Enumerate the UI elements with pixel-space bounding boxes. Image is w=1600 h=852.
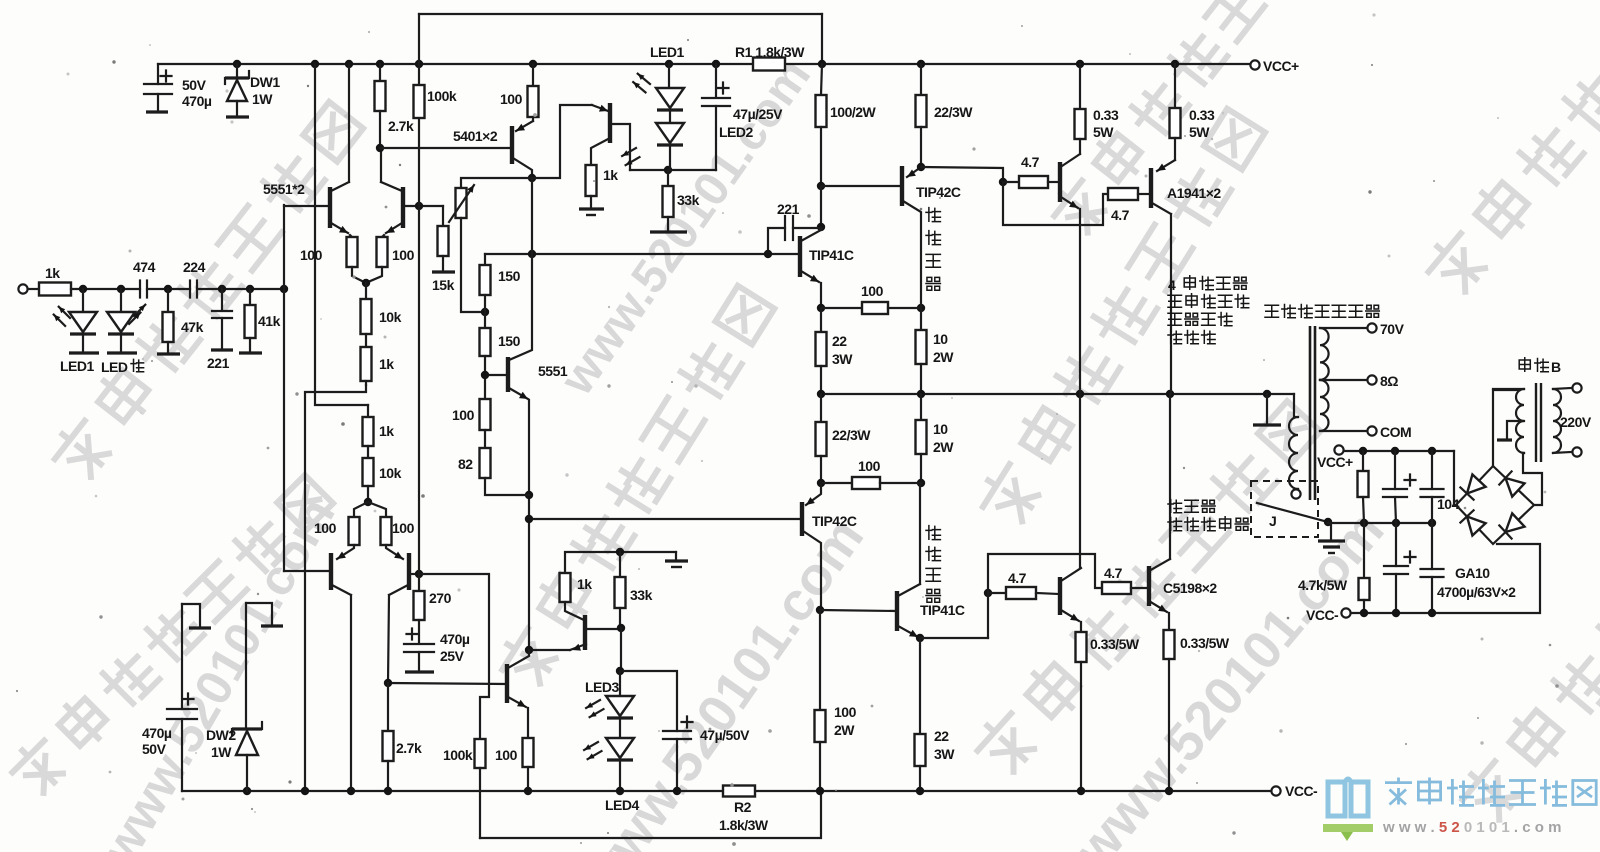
node 221 junction [817, 223, 825, 231]
node vas out [525, 646, 533, 654]
stub terminal right [246, 603, 283, 626]
svg-text:DW2: DW2 [206, 727, 236, 743]
label VCC- psu [1306, 607, 1339, 623]
watermark cjk right-lower [970, 397, 1321, 779]
resistor 10k tail [361, 283, 372, 334]
capacitor 47u/25V [702, 64, 730, 170]
svg-text:1k: 1k [45, 265, 60, 281]
svg-text:LED: LED [101, 359, 128, 375]
diode bridge TR [1499, 471, 1524, 496]
label 100 lowpair L [314, 520, 337, 536]
capacitor 470u/50V lower [167, 604, 197, 791]
svg-text:0.33: 0.33 [1093, 107, 1119, 123]
label 100k lower [443, 747, 473, 763]
label 0.33/5W c5198 [1180, 635, 1230, 651]
label 221 input [207, 355, 230, 371]
terminal coil end [1291, 489, 1300, 498]
label GA10 [1455, 565, 1490, 581]
label 82 chain [458, 456, 473, 472]
node psu mid dots [1360, 519, 1436, 527]
wire tap 8ohm [1320, 379, 1367, 381]
wire tip42top base [821, 185, 901, 187]
node 33k2 top [616, 548, 624, 556]
label 100k upper [427, 88, 457, 104]
svg-text:C5198×2: C5198×2 [1163, 580, 1217, 596]
label VCC+ [1263, 58, 1299, 74]
svg-text:470µ: 470µ [182, 93, 212, 109]
LED LED4 [606, 738, 634, 791]
svg-text:100: 100 [858, 458, 881, 474]
logo url [1382, 819, 1561, 836]
label heatsink upper [926, 208, 940, 291]
svg-text:100: 100 [861, 283, 884, 299]
svg-text:221: 221 [207, 355, 230, 371]
wire rail column x315 [315, 64, 368, 405]
wire VCC+ top rail [158, 63, 1250, 65]
svg-text:50V: 50V [142, 741, 167, 757]
svg-text:TIP41C: TIP41C [920, 602, 965, 618]
resistor 100 5401L [528, 64, 539, 121]
watermark cjk top-right [1421, 0, 1600, 299]
watermark cjk center-right [975, 106, 1267, 530]
resistor 4.7 a1941 [1108, 188, 1150, 200]
wire c5198 base path [988, 554, 1102, 593]
svg-text:2W: 2W [933, 439, 954, 455]
resistor 22 3W [816, 308, 827, 394]
wire driver2 emitter [1080, 622, 1082, 632]
label 47u/50V [700, 727, 750, 743]
watermark cjk top-left [48, 99, 365, 485]
label heatsink lower [926, 526, 940, 603]
label 270 [429, 590, 452, 606]
watermark url right [1063, 500, 1396, 852]
wire top feedback line [419, 14, 822, 64]
node driver2 feed [984, 589, 992, 597]
svg-text:33k: 33k [630, 587, 653, 603]
label TIP42C top [916, 184, 961, 200]
resistor 22/3W top [916, 64, 927, 167]
label DW1 1W [250, 74, 280, 107]
svg-text:100: 100 [495, 747, 518, 763]
transistor 5551 middle [485, 357, 528, 399]
svg-text:10: 10 [933, 331, 948, 347]
wire base line y684 [388, 683, 506, 684]
svg-text:8Ω: 8Ω [1380, 373, 1398, 389]
wire 5401R emitter path [532, 105, 592, 178]
svg-text:5551*2: 5551*2 [263, 181, 305, 197]
svg-text:47µ/50V: 47µ/50V [700, 727, 750, 743]
label 100 row2 [858, 458, 881, 474]
resistor 100 vas emitter [523, 708, 534, 791]
label 2.7k upper [388, 118, 414, 134]
svg-text:100k: 100k [443, 747, 473, 763]
capacitor 47u/50V [620, 671, 693, 791]
resistor 2.7k upper [375, 64, 386, 148]
svg-text:2W: 2W [834, 722, 855, 738]
node vas base dots [528, 250, 772, 258]
label 70V [1380, 321, 1405, 337]
label VCC- bottom [1285, 783, 1318, 799]
transistor A1941x2 [1151, 160, 1175, 214]
svg-text:100: 100 [392, 247, 415, 263]
svg-text:470µ: 470µ [440, 631, 470, 647]
transformer core [1310, 326, 1315, 500]
label 4.7 a1941 [1111, 207, 1130, 223]
wire feedback column x419 [418, 14, 420, 574]
label DW2 1W [206, 727, 236, 760]
label LED4 [605, 797, 640, 813]
label 10k lower chain [379, 465, 402, 481]
label 100 lowpair R [392, 520, 415, 536]
label 220V [1560, 414, 1592, 430]
label 4.7 c5198 [1104, 565, 1123, 581]
LED1 light arrows [54, 307, 70, 326]
wire feedback bottom line [480, 791, 821, 838]
diode bridge BR [1499, 513, 1524, 538]
svg-text:LED1: LED1 [650, 44, 685, 60]
zener DW1 [225, 64, 249, 117]
wire 5551R collector [380, 148, 382, 182]
svg-text:100: 100 [314, 520, 337, 536]
wire chain a [484, 295, 486, 328]
LED2 string arrows [622, 148, 639, 165]
stub terminal left [182, 604, 211, 628]
wire output rail [821, 393, 1294, 395]
label 33k bias2 [630, 587, 653, 603]
resistor 150 b [480, 328, 491, 356]
wire tip41low emitter link [920, 593, 988, 638]
transformer 220 secondary [1493, 389, 1524, 453]
label 1k input [45, 265, 60, 281]
terminal COM [1367, 426, 1376, 435]
LED-red light arrows [129, 305, 145, 324]
svg-text:DW1: DW1 [250, 74, 280, 90]
svg-text:47k: 47k [181, 319, 204, 335]
svg-text:82: 82 [458, 456, 473, 472]
svg-text:TIP42C: TIP42C [812, 513, 857, 529]
node base dots [415, 202, 423, 210]
transistor TIP41C upper [800, 230, 821, 308]
resistor 1k tail [361, 334, 372, 385]
resistor 100/2W lower [815, 610, 826, 791]
node vas dots [525, 491, 533, 523]
svg-text:4.7: 4.7 [1104, 565, 1123, 581]
resistor 4.7 d2 [988, 587, 1059, 599]
transistor 5401 left [512, 121, 533, 178]
node chain dot1 [481, 308, 489, 316]
wire emitter tap [921, 167, 1003, 182]
svg-text:100: 100 [392, 520, 415, 536]
resistor 2.7k lower [383, 683, 394, 791]
node lower chain foot [364, 498, 372, 506]
resistor 100 lowpair R [368, 502, 392, 545]
resistor 1k bias2 [560, 573, 585, 620]
transistor lowpair left [284, 545, 354, 595]
svg-text:5W: 5W [1189, 124, 1210, 140]
label 10 2W a [933, 331, 954, 365]
svg-text:150: 150 [498, 268, 521, 284]
svg-text:22: 22 [934, 728, 949, 744]
node rail dots [233, 60, 1179, 68]
bridge outline [1456, 466, 1534, 544]
transistor 5401 right [591, 103, 630, 170]
resistor 47k [157, 289, 180, 354]
svg-text:470µ: 470µ [142, 725, 172, 741]
watermark url center [570, 508, 875, 852]
svg-text:224: 224 [183, 259, 206, 275]
transistor lowpair right [386, 545, 419, 595]
transformer 220 core [1536, 383, 1541, 462]
svg-text:22: 22 [832, 333, 847, 349]
transistor TIP42C top [902, 166, 921, 308]
svg-text:1.8k/3W: 1.8k/3W [719, 817, 769, 833]
transformer secondary coil [1320, 328, 1329, 431]
transistor driver1 [1060, 154, 1080, 208]
label output transformer [1265, 305, 1379, 318]
wire vas column lower [528, 400, 530, 651]
wire lowpair L collector [350, 595, 352, 791]
transistor 5551 left [284, 182, 349, 233]
LED LED3 [606, 671, 634, 738]
label power note [1168, 276, 1249, 344]
resistor 100k lower [475, 739, 486, 838]
relay contact arm [1257, 503, 1328, 522]
svg-text:GA10: GA10 [1455, 565, 1490, 581]
resistor 1k lower chain [363, 405, 374, 446]
resistor 1k input [28, 283, 140, 296]
node bottom rail dots [243, 787, 1173, 795]
transistor 5551 right [381, 182, 443, 233]
wire column x305 to bottom [305, 385, 366, 791]
svg-text:R2: R2 [734, 799, 752, 815]
resistor 100 row1 [821, 302, 921, 314]
wire led34 column [620, 628, 622, 671]
resistor 100 5551R emitter [368, 235, 388, 282]
label 150 b [498, 333, 521, 349]
svg-text:B: B [1551, 359, 1561, 375]
resistor 100 row2 [821, 477, 921, 489]
label C5198x2 [1163, 580, 1217, 596]
capacitor 221 miller [768, 216, 821, 254]
terminal VCC+ psu [1334, 445, 1343, 454]
label 100/2W upper [830, 104, 877, 120]
wire vas column upper [509, 178, 532, 360]
svg-text:4700µ/63V×2: 4700µ/63V×2 [1437, 584, 1516, 600]
svg-text:10: 10 [933, 421, 948, 437]
svg-text:VCC-: VCC- [1306, 607, 1339, 623]
svg-text:4.7: 4.7 [1008, 570, 1027, 586]
svg-text:25V: 25V [440, 648, 465, 664]
svg-text:VCC+: VCC+ [1317, 454, 1353, 470]
resistor 100 lowpair L [349, 502, 369, 545]
label 100 chain [452, 407, 475, 423]
label 47u/25V [733, 106, 783, 122]
label 5401x2 [453, 128, 498, 144]
resistor 22/3W b [816, 394, 827, 483]
svg-text:0.33: 0.33 [1189, 107, 1215, 123]
svg-text:50V: 50V [182, 77, 207, 93]
terminal input [18, 284, 27, 293]
terminal 220 top [1572, 383, 1581, 392]
label power B [1519, 358, 1561, 375]
label 150 a [498, 268, 521, 284]
svg-text:70V: 70V [1380, 321, 1405, 337]
wire a1941 collector [1170, 214, 1172, 394]
resistor 100 5551L emitter [347, 235, 365, 282]
svg-text:1W: 1W [252, 91, 273, 107]
svg-text:1k: 1k [603, 167, 618, 183]
capacitor 4700u b [1384, 523, 1416, 613]
svg-text:A1941×2: A1941×2 [1167, 185, 1221, 201]
label 4.7 d2 [1008, 570, 1027, 586]
label 5551*2 [263, 181, 305, 197]
svg-text:2.7k: 2.7k [388, 118, 414, 134]
svg-text:15k: 15k [432, 277, 455, 293]
label 1k 5401R [603, 167, 618, 183]
svg-text:4: 4 [1168, 277, 1176, 293]
label 22/3W b [832, 427, 871, 443]
wire chain top link [484, 254, 486, 265]
resistor 4.7 c5198 [1102, 582, 1148, 594]
svg-text:33k: 33k [677, 192, 700, 208]
svg-text:TIP41C: TIP41C [809, 247, 854, 263]
svg-text:LED4: LED4 [605, 797, 640, 813]
stub output T [1253, 394, 1281, 425]
svg-text:4.7: 4.7 [1021, 154, 1040, 170]
svg-text:5401×2: 5401×2 [453, 128, 498, 144]
wire col x821 b [820, 186, 822, 227]
node chain base tap [481, 371, 489, 379]
resistor 0.33/5W d2 [1076, 632, 1087, 791]
wire lowpair R collector [388, 595, 389, 683]
svg-text:LED3: LED3 [585, 679, 620, 695]
capacitor 470u/50V top-left [144, 64, 172, 112]
resistor 4.7 d1 [1003, 176, 1059, 188]
label 22 3W [832, 333, 853, 367]
svg-text:5551: 5551 [538, 363, 568, 379]
label VCC+ psu [1317, 454, 1353, 470]
resistor 22/3W lower [915, 638, 926, 791]
label 100 5401L [500, 91, 523, 107]
label 1k bias2 [577, 576, 592, 592]
terminal 8ohm [1367, 375, 1376, 384]
watermark cjk top-mid-right [1048, 0, 1341, 239]
relay box dashed [1251, 481, 1318, 537]
label 0.33 5W a1941 [1189, 107, 1215, 140]
watermark url left [91, 488, 346, 852]
svg-text:150: 150 [498, 333, 521, 349]
wire top link y552 [565, 552, 688, 573]
svg-text:2.7k: 2.7k [396, 740, 422, 756]
node tip42top emitter [917, 163, 925, 171]
LED1 string arrows [633, 74, 650, 93]
wire driver1 emitter [1079, 209, 1081, 394]
svg-text:22/3W: 22/3W [832, 427, 871, 443]
ground psu [1318, 523, 1345, 553]
label 10k tail [379, 309, 402, 325]
node psu bottom dots [1360, 609, 1436, 617]
svg-text:TIP42C: TIP42C [916, 184, 961, 200]
svg-text:1k: 1k [379, 423, 394, 439]
capacitor 104 a [1421, 451, 1444, 523]
label 1k lower chain [379, 423, 394, 439]
node tip41low base [816, 606, 824, 614]
wire psu mid line [1328, 522, 1432, 524]
svg-text:1k: 1k [379, 356, 394, 372]
wire bridge AC2 [1523, 453, 1542, 505]
svg-text:5W: 5W [1093, 124, 1114, 140]
label 100 row1 [861, 283, 884, 299]
node led34 cap tap [616, 667, 624, 675]
logo site name [1385, 778, 1596, 806]
svg-text:w w w . 5 2 0 1 0 1 . c o m: w w w . 5 2 0 1 0 1 . c o m [1382, 819, 1561, 836]
wire c5198 collector [1169, 394, 1171, 559]
wire 5401 base line [380, 147, 511, 149]
label A1941x2 [1167, 185, 1221, 201]
svg-text:100: 100 [452, 407, 475, 423]
wire 5551L collector [348, 64, 350, 182]
label 4700u/63Vx2 [1437, 584, 1516, 600]
node driver1 base node [999, 178, 1007, 186]
terminal 220 bottom [1572, 447, 1581, 456]
wire chain c [484, 430, 486, 448]
transistor TIP41C lower [897, 584, 920, 637]
transformer 220 primary [1553, 388, 1571, 453]
resistor 100k upper [414, 85, 425, 118]
svg-text:22/3W: 22/3W [934, 104, 973, 120]
capacitor 221 input [211, 289, 233, 350]
node tip41low emitter [916, 634, 924, 642]
svg-text:100: 100 [834, 704, 857, 720]
node bias [664, 166, 672, 174]
label 4.7k/5W [1298, 577, 1348, 593]
node tip42top base tap [817, 182, 825, 190]
label R1 [735, 44, 805, 60]
label 470u 50V lower [142, 725, 172, 757]
LED LED2 string [656, 123, 684, 170]
svg-text:3W: 3W [934, 746, 955, 762]
wire tip41low collector [919, 483, 921, 584]
zener DW2 [232, 603, 262, 791]
label 15k [432, 277, 455, 293]
watermark cjk bottom-right [1455, 436, 1600, 827]
label 22/3W lower [934, 728, 955, 762]
resistor 10 2W a [916, 308, 927, 394]
svg-text:3W: 3W [832, 351, 853, 367]
svg-text:4.7k/5W: 4.7k/5W [1298, 577, 1348, 593]
label 5551 middle [538, 363, 568, 379]
label 221 miller [777, 201, 800, 217]
capacitor 224 [190, 281, 284, 298]
svg-text:LED1: LED1 [60, 358, 95, 374]
svg-text:LED2: LED2 [719, 124, 754, 140]
wire chain foot [485, 478, 529, 495]
resistor 10k lower chain [363, 446, 374, 502]
label 0.33/5W d2 [1090, 636, 1140, 652]
label 50V 470u [182, 77, 212, 109]
watermark url top-center [550, 50, 821, 405]
label TIP41C upper [809, 247, 854, 263]
wire bias node y170 [630, 169, 716, 171]
wire bridge plus [1454, 451, 1456, 505]
wire vas feed path [419, 574, 489, 739]
svg-text:1W: 1W [211, 744, 232, 760]
label 100 5551L [300, 247, 323, 263]
node bias small base [617, 624, 625, 632]
LED LED1 string [656, 64, 684, 123]
svg-text:1k: 1k [577, 576, 592, 592]
trimmer resistor [449, 185, 485, 312]
